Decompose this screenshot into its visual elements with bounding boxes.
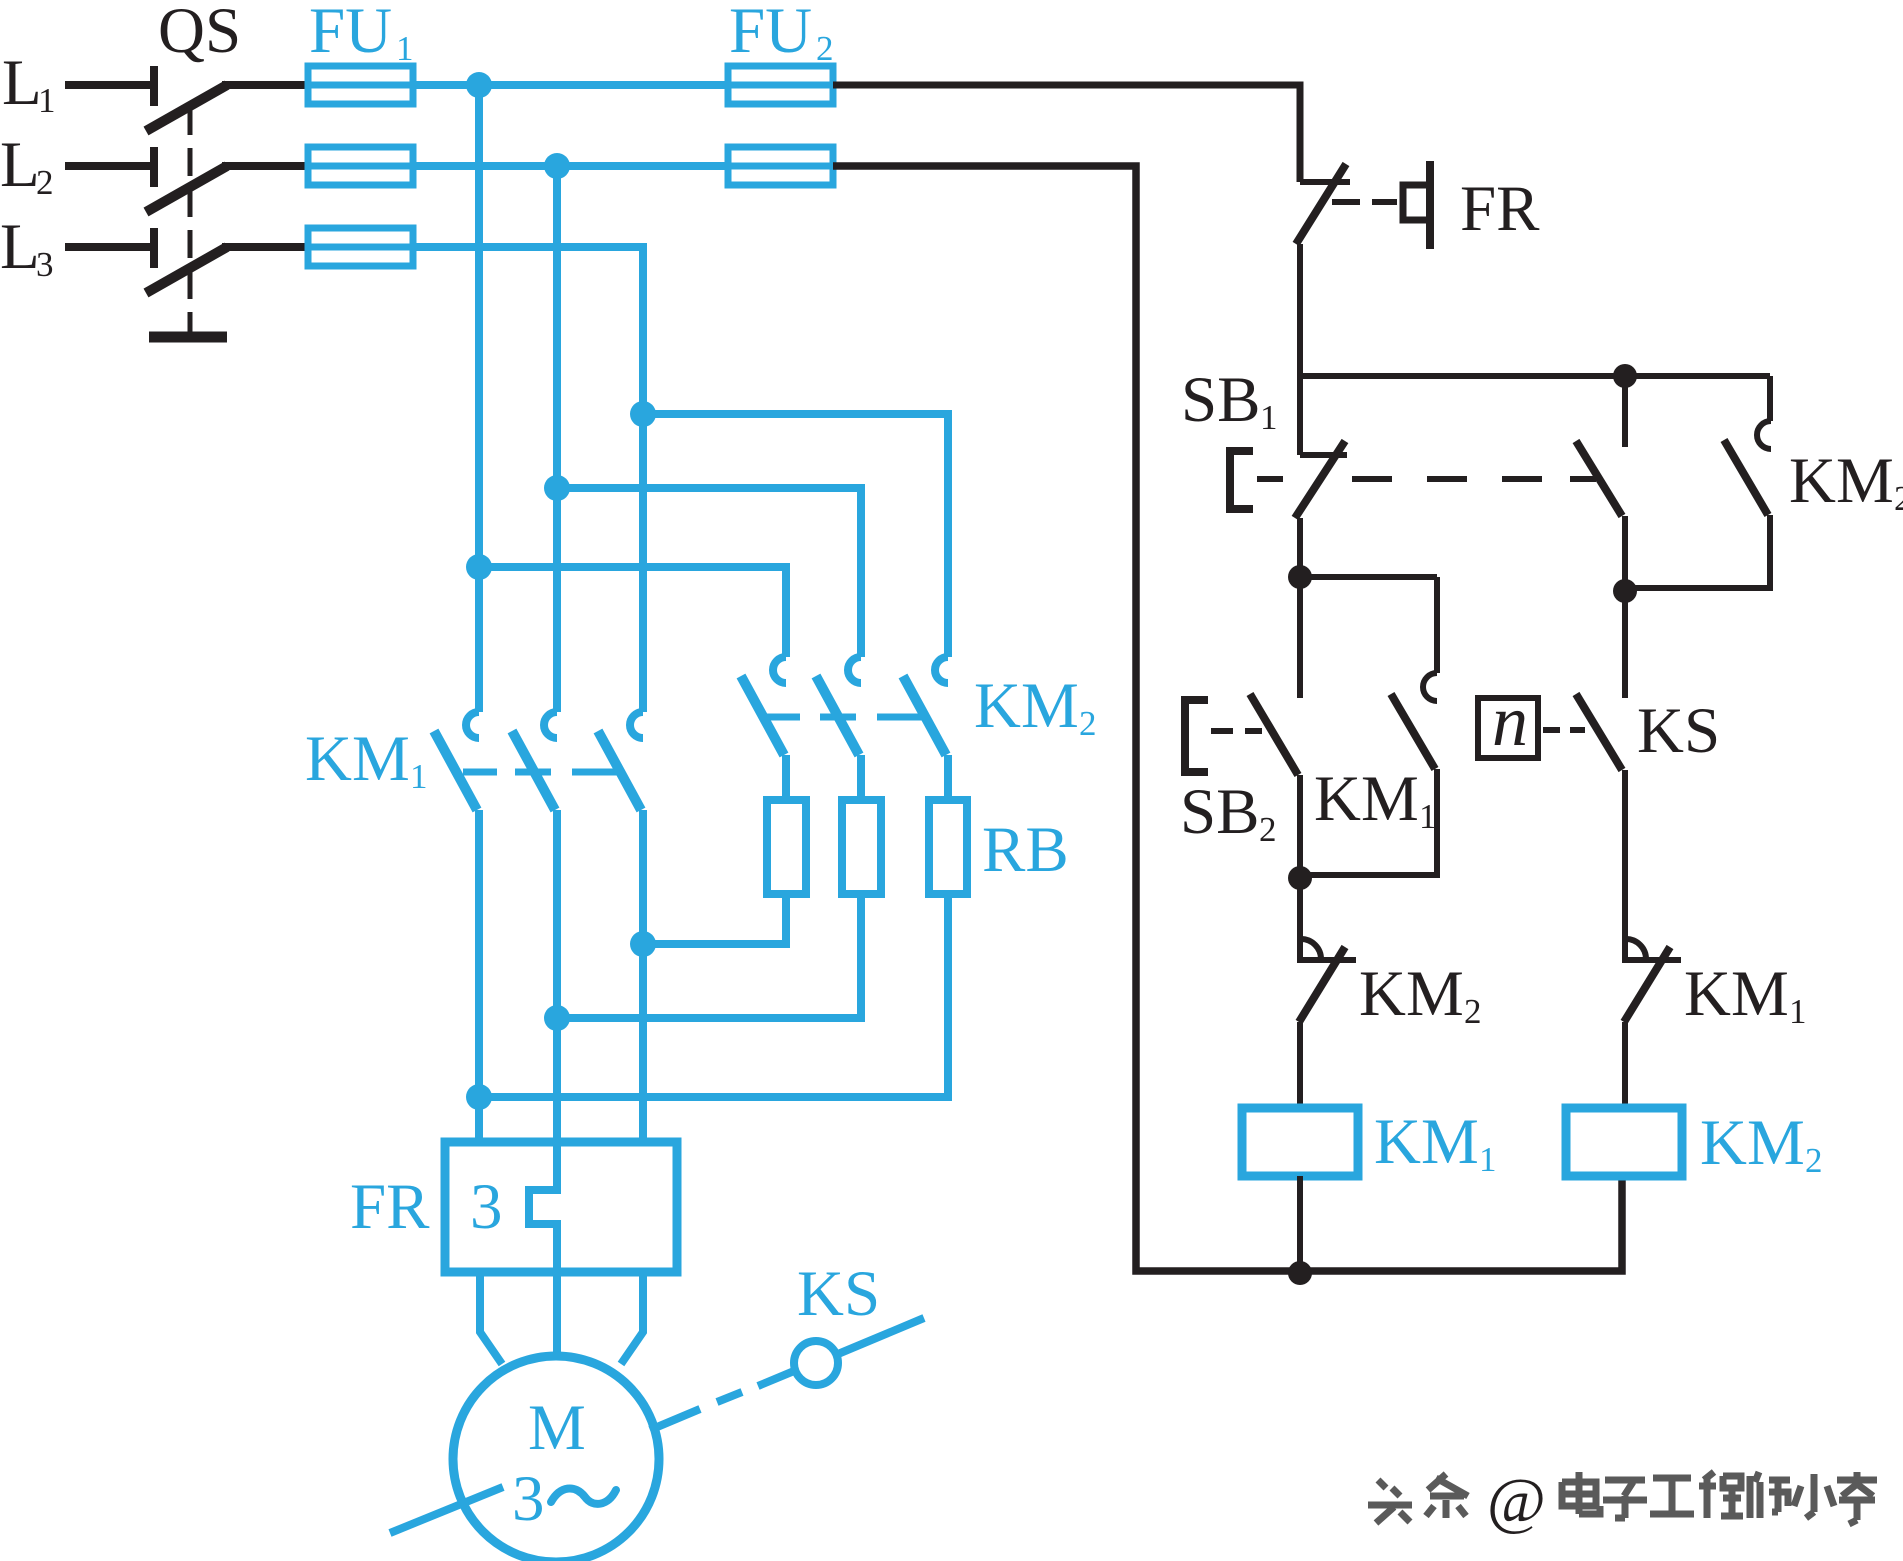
switch QS handle bar	[149, 332, 227, 343]
svg-text:2: 2	[1894, 479, 1903, 518]
fuse FU1 label	[309, 0, 414, 68]
button SB2 blade	[1250, 694, 1298, 775]
svg-text:1: 1	[1789, 992, 1807, 1031]
contact KM2 aux NO right wire lower	[1625, 515, 1770, 588]
svg-text:3: 3	[512, 1463, 545, 1535]
wire phase 3 to main vertical	[413, 247, 643, 712]
wire node C to KM2 NC	[1297, 878, 1303, 960]
wire QS to FU1 phase 3	[222, 243, 308, 251]
motor M circle	[453, 1356, 659, 1561]
fuse FU1 element 3	[308, 228, 413, 266]
wire QS to FU1 phase 1	[222, 81, 308, 89]
motor 3-phase mark	[512, 1463, 616, 1535]
svg-text:2: 2	[1079, 704, 1097, 743]
wire L3 incoming	[65, 243, 152, 251]
svg-text:L: L	[2, 47, 42, 119]
button SB1 blade	[1295, 441, 1345, 518]
svg-text:3: 3	[470, 1171, 503, 1243]
contact KM2 aux NO right blade	[1724, 440, 1768, 515]
coil KM1	[1242, 1108, 1358, 1176]
wire RB1 return to phase3	[643, 894, 786, 944]
wire coil KM1 to bottom bus	[1297, 1176, 1303, 1271]
svg-text:FU: FU	[309, 0, 392, 67]
wire SB2 to node C	[1297, 775, 1303, 878]
watermark at sign	[1487, 1465, 1546, 1536]
coil KM2	[1566, 1108, 1682, 1176]
svg-text:2: 2	[1464, 992, 1482, 1031]
resistor RB element 3	[929, 800, 967, 894]
wire L1 feed to control	[833, 85, 1300, 182]
switch QS pole 2 terminal	[150, 147, 158, 187]
fuse FU1 element 1	[308, 66, 413, 104]
speed switch KS label power	[797, 1258, 880, 1330]
svg-text:L: L	[0, 211, 40, 283]
speed switch KS shaft line to circle	[758, 1371, 794, 1386]
contactor KM1 pole 3	[598, 712, 643, 810]
svg-text:1: 1	[396, 29, 414, 68]
wire branch to KM2 pole 2	[557, 488, 861, 657]
wire KM2 NC to coil KM1	[1297, 1022, 1303, 1108]
overload relay FR label power	[350, 1171, 430, 1243]
svg-text:3: 3	[36, 245, 54, 284]
button SB1 actuator bracket	[1230, 451, 1253, 509]
svg-text:KM: KM	[1684, 958, 1789, 1030]
contact KM2 interlock NC blade	[1299, 947, 1345, 1022]
node L2	[0, 129, 54, 202]
junction dot top rail x1625	[1613, 364, 1637, 388]
speed switch KS shaft line lower	[390, 1487, 503, 1533]
svg-text:1: 1	[1260, 398, 1278, 437]
wire KM2 pole2 to RB2	[857, 755, 865, 800]
wire L2 feed to control left bus	[833, 166, 1622, 1271]
button SB1 upper wire	[1297, 376, 1303, 455]
fuse FU2 element 2	[728, 147, 833, 185]
wire FU1 to FU2 phase 2	[413, 162, 728, 170]
wire KM2 pole1 to RB1	[782, 755, 790, 800]
resistor RB label	[982, 814, 1069, 886]
wire phase2 lower x557	[553, 810, 561, 1142]
wire FR to motor lead 1	[480, 1272, 502, 1364]
wire SB1 to node A	[1297, 518, 1303, 577]
switch QS pole 3 terminal	[150, 228, 158, 268]
svg-text:SB: SB	[1180, 776, 1260, 848]
resistor RB element 1	[767, 800, 806, 894]
svg-text:KM: KM	[1314, 763, 1419, 835]
speed switch KS shaft line upper	[650, 1409, 700, 1430]
junction dot node C	[1288, 866, 1312, 890]
overload relay FR label control	[1460, 173, 1540, 245]
speed switch KS shaft line top	[838, 1318, 924, 1354]
svg-text:2: 2	[1805, 1141, 1823, 1180]
wire phase1 lower x479	[475, 810, 483, 1142]
contact KM2 interlock NC terminal arc	[1301, 939, 1321, 959]
switch QS pole 3 blade	[146, 247, 227, 293]
wire phase3 lower x643	[639, 810, 647, 1142]
switch QS pole 2 blade	[146, 166, 227, 212]
button SB1 label	[1181, 364, 1278, 437]
wire main vertical phase 1 x479 upper	[475, 85, 483, 712]
overload relay FR contact tick	[1300, 179, 1350, 185]
contact KM2 aux NO middle blade	[1576, 441, 1622, 516]
wire FR to motor lead 2	[553, 1272, 561, 1356]
svg-text:KM: KM	[1359, 958, 1464, 1030]
svg-text:KS: KS	[1637, 695, 1720, 767]
svg-text:KM: KM	[974, 670, 1079, 742]
wire FR to motor lead 3	[621, 1272, 643, 1364]
overload relay FR contact blade	[1296, 164, 1346, 244]
contact KM2 interlock NC label	[1359, 958, 1482, 1031]
svg-text:RB: RB	[982, 814, 1069, 886]
svg-text:1: 1	[1479, 1140, 1497, 1179]
contact KM1 interlock NC terminal arc	[1626, 939, 1646, 959]
switch QS linkage dashed	[188, 107, 193, 333]
motor M letter	[528, 1392, 586, 1464]
svg-text:M: M	[528, 1392, 586, 1464]
svg-text:n: n	[1492, 681, 1528, 761]
svg-text:KM: KM	[1789, 445, 1894, 517]
wire FR contact to SB1	[1297, 244, 1303, 379]
speed switch KS linkage dashes	[1543, 727, 1585, 733]
wire control top rail	[1297, 373, 1770, 379]
contact KM1 self hold label	[1314, 763, 1437, 836]
junction dot RB3 return	[466, 1084, 492, 1110]
svg-text:FU: FU	[729, 0, 812, 67]
wire RB2 return to phase2	[557, 894, 861, 1018]
junction dot RB2 return	[544, 1005, 570, 1031]
speed sensor n box	[1478, 681, 1538, 761]
junction dot node A	[1288, 565, 1312, 589]
contact KM1 interlock NC blade	[1624, 947, 1670, 1022]
contact KM1 self hold terminal	[1423, 673, 1437, 701]
svg-text:KS: KS	[797, 1258, 880, 1330]
svg-text:@: @	[1487, 1465, 1546, 1536]
overload relay FR quantity 3	[470, 1171, 503, 1243]
junction dot phase2 x557	[544, 153, 570, 179]
svg-text:QS: QS	[158, 0, 241, 67]
contact KM1 self hold wire upper	[1434, 577, 1440, 673]
contactor KM2 pole 2	[816, 657, 861, 755]
node L1	[2, 47, 56, 120]
contact KM2 aux NO middle wire upper	[1622, 376, 1628, 447]
contactor KM2 label top right	[1789, 445, 1903, 518]
svg-text:2: 2	[816, 29, 834, 68]
wire QS to FU1 phase 2	[222, 162, 308, 170]
contact KM2 aux NO right wire upper	[1767, 376, 1773, 421]
contactor KM1 label	[305, 723, 428, 796]
wire RB3 return to phase1	[479, 894, 948, 1097]
button SB2 actuator bracket	[1185, 700, 1208, 772]
button SB2 wire upper	[1297, 577, 1303, 698]
junction dot branch x557	[544, 475, 570, 501]
fuse FU2 label	[729, 0, 834, 68]
svg-text:KM: KM	[305, 723, 410, 795]
junction dot phase1 x479	[466, 72, 492, 98]
overload relay FR box	[445, 1142, 677, 1272]
switch QS pole 1 terminal	[150, 66, 158, 106]
wire L1 incoming	[65, 81, 152, 89]
contactor KM2 pole 3	[903, 657, 948, 755]
speed switch KS contact wire upper	[1622, 591, 1628, 698]
wire branch to KM2 pole 3	[643, 414, 948, 657]
resistor RB element 2	[842, 800, 881, 894]
watermark toutiao text	[1368, 1472, 1877, 1524]
switch QS pole 1 blade	[146, 85, 227, 131]
wire main vertical phase 2 x557 upper	[553, 166, 561, 712]
svg-text:2: 2	[1259, 810, 1277, 849]
contact KM1 interlock NC tick	[1622, 957, 1681, 963]
svg-text:2: 2	[36, 163, 54, 202]
contactor KM1 linkage dashes	[463, 769, 618, 776]
overload relay FR actuator symbol	[1403, 161, 1430, 249]
svg-text:FR: FR	[350, 1171, 430, 1243]
svg-text:SB: SB	[1181, 364, 1261, 436]
contact KM1 interlock NC label	[1684, 958, 1807, 1031]
junction dot node B	[1613, 579, 1637, 603]
wire node A branch to KM1 self hold	[1300, 574, 1437, 580]
overload relay FR heater element	[529, 1142, 557, 1272]
wire KM1 NC to coil KM2	[1622, 1022, 1628, 1108]
button SB1 contact tick	[1300, 452, 1347, 458]
overload relay FR contact dashes	[1332, 199, 1397, 205]
wire L2 incoming	[65, 162, 152, 170]
contact KM1 self hold blade	[1391, 694, 1435, 769]
junction dot branch x479	[466, 554, 492, 580]
button SB2 linkage dashes	[1211, 728, 1262, 734]
contact KM1 self hold wire lower	[1300, 769, 1437, 875]
wire branch to KM2 pole 1	[479, 567, 786, 657]
svg-text:1: 1	[1419, 797, 1437, 836]
svg-text:KM: KM	[1700, 1107, 1805, 1179]
svg-text:KM: KM	[1374, 1106, 1479, 1178]
wire KM2 pole3 to RB3	[944, 755, 952, 800]
wire FU1 to FU2 phase 1	[413, 81, 728, 89]
junction dot bottom bus	[1288, 1261, 1312, 1285]
junction dot branch x643	[630, 401, 656, 427]
wire KS to KM1 NC	[1622, 770, 1628, 960]
fuse FU1 element 2	[308, 147, 413, 185]
contactor KM1 pole 1	[434, 712, 479, 810]
contact KM2 aux NO right terminal	[1757, 421, 1771, 449]
contactor KM2 label power	[974, 670, 1097, 743]
contact KM2 interlock NC tick	[1297, 957, 1356, 963]
coil KM2 label	[1700, 1107, 1823, 1180]
contactor KM2 linkage dashes	[766, 714, 925, 721]
junction dot RB1 return	[630, 931, 656, 957]
speed switch KS contact blade	[1576, 694, 1622, 770]
speed switch KS label control	[1637, 695, 1720, 767]
coil KM1 label	[1374, 1106, 1497, 1179]
speed switch KS shaft dash	[717, 1392, 742, 1402]
contact KM2 aux NO middle wire lower	[1622, 516, 1628, 591]
fuse FU2 element 1	[728, 66, 833, 104]
svg-text:1: 1	[410, 757, 428, 796]
button SB2 label	[1180, 776, 1277, 849]
node L3	[0, 211, 54, 284]
speed switch KS circle	[794, 1341, 838, 1385]
contactor KM1 pole 2	[512, 712, 557, 810]
button SB1 linkage dashes	[1257, 476, 1596, 482]
switch QS label	[158, 0, 241, 67]
svg-text:FR: FR	[1460, 173, 1540, 245]
contactor KM2 pole 1	[741, 657, 786, 755]
svg-text:1: 1	[38, 81, 56, 120]
svg-text:L: L	[0, 129, 40, 201]
